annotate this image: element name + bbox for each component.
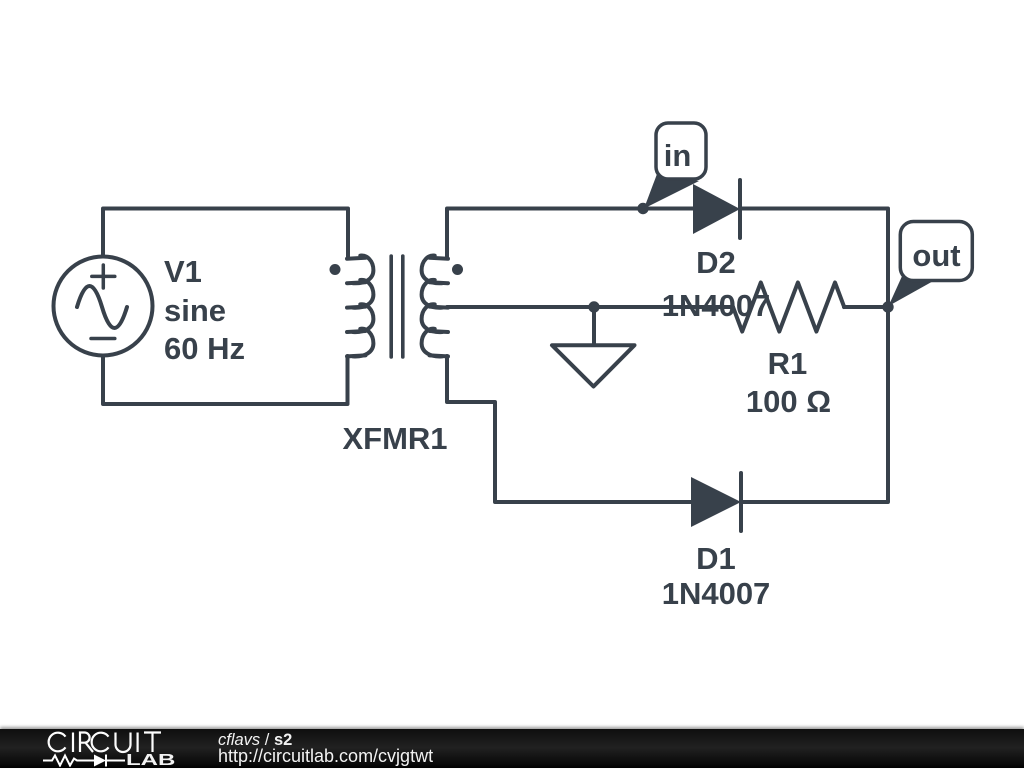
voltage source V1 circle	[54, 257, 153, 356]
svg-text:D1: D1	[696, 541, 736, 576]
transformer XFMR1 core	[391, 256, 403, 357]
svg-text:XFMR1: XFMR1	[342, 421, 447, 456]
diode D1 cathode bar	[739, 473, 743, 531]
node flag out: tail wedge	[889, 274, 937, 306]
node flag out: bubble	[900, 222, 972, 281]
voltage source V1 sine wave	[77, 286, 127, 328]
svg-text:sine: sine	[164, 293, 226, 328]
footer url line	[218, 749, 433, 764]
node flag in: tail wedge	[644, 174, 699, 209]
svg-text:in: in	[664, 138, 692, 173]
voltage source V1 plus sign	[92, 265, 115, 288]
transformer XFMR1 primary polarity dot	[330, 264, 341, 275]
footer author line: cflavs / s2	[218, 733, 292, 748]
transformer XFMR1 secondary winding turns	[422, 255, 442, 356]
wire: V1 top to primary winding top	[103, 209, 348, 259]
svg-text:100 Ω: 100 Ω	[746, 384, 831, 419]
svg-text:60 Hz: 60 Hz	[164, 331, 245, 366]
resistor R1 zigzag	[733, 283, 844, 332]
svg-text:1N4007: 1N4007	[662, 288, 771, 323]
node junction dot at out	[882, 301, 893, 312]
node junction dot at diode D2 anode	[637, 203, 648, 214]
transformer XFMR1 secondary polarity dot	[452, 264, 463, 275]
svg-text:V1: V1	[164, 254, 202, 289]
diode D2 triangle	[693, 184, 740, 234]
wire: resistor R1 right lead to out node	[844, 305, 888, 309]
CircuitLab logo word CIRCUIT	[44, 731, 179, 757]
footer bar	[0, 729, 1024, 768]
node junction dot at ground tap	[588, 301, 599, 312]
voltage source V1 minus sign	[91, 337, 115, 341]
diode D1 triangle	[691, 477, 741, 527]
wire: diode D2 cathode to out node (top right corner)	[740, 209, 888, 308]
ground symbol	[552, 307, 635, 387]
svg-text:out: out	[912, 238, 960, 273]
svg-text:R1: R1	[768, 346, 808, 381]
svg-text:1N4007: 1N4007	[662, 576, 771, 611]
CircuitLab logo schematic glyph (resistor + diode)	[43, 753, 133, 767]
wire: center tap to resistor R1 left	[447, 305, 733, 309]
node flag in: bubble	[656, 123, 706, 179]
wire: secondary top to diode D2 anode	[447, 209, 693, 259]
transformer XFMR1 secondary winding waists	[430, 258, 449, 357]
wire: secondary bottom to diode D1 anode	[447, 356, 691, 502]
CircuitLab logo word LAB	[126, 753, 175, 768]
transformer XFMR1 primary winding turns	[353, 255, 373, 356]
wire: diode D1 cathode to out node	[741, 307, 888, 502]
wire: V1 bottom to primary winding bottom	[103, 356, 348, 404]
diode D2 cathode bar	[738, 180, 742, 238]
transformer XFMR1 primary winding waists	[347, 258, 366, 357]
svg-text:D2: D2	[696, 245, 736, 280]
